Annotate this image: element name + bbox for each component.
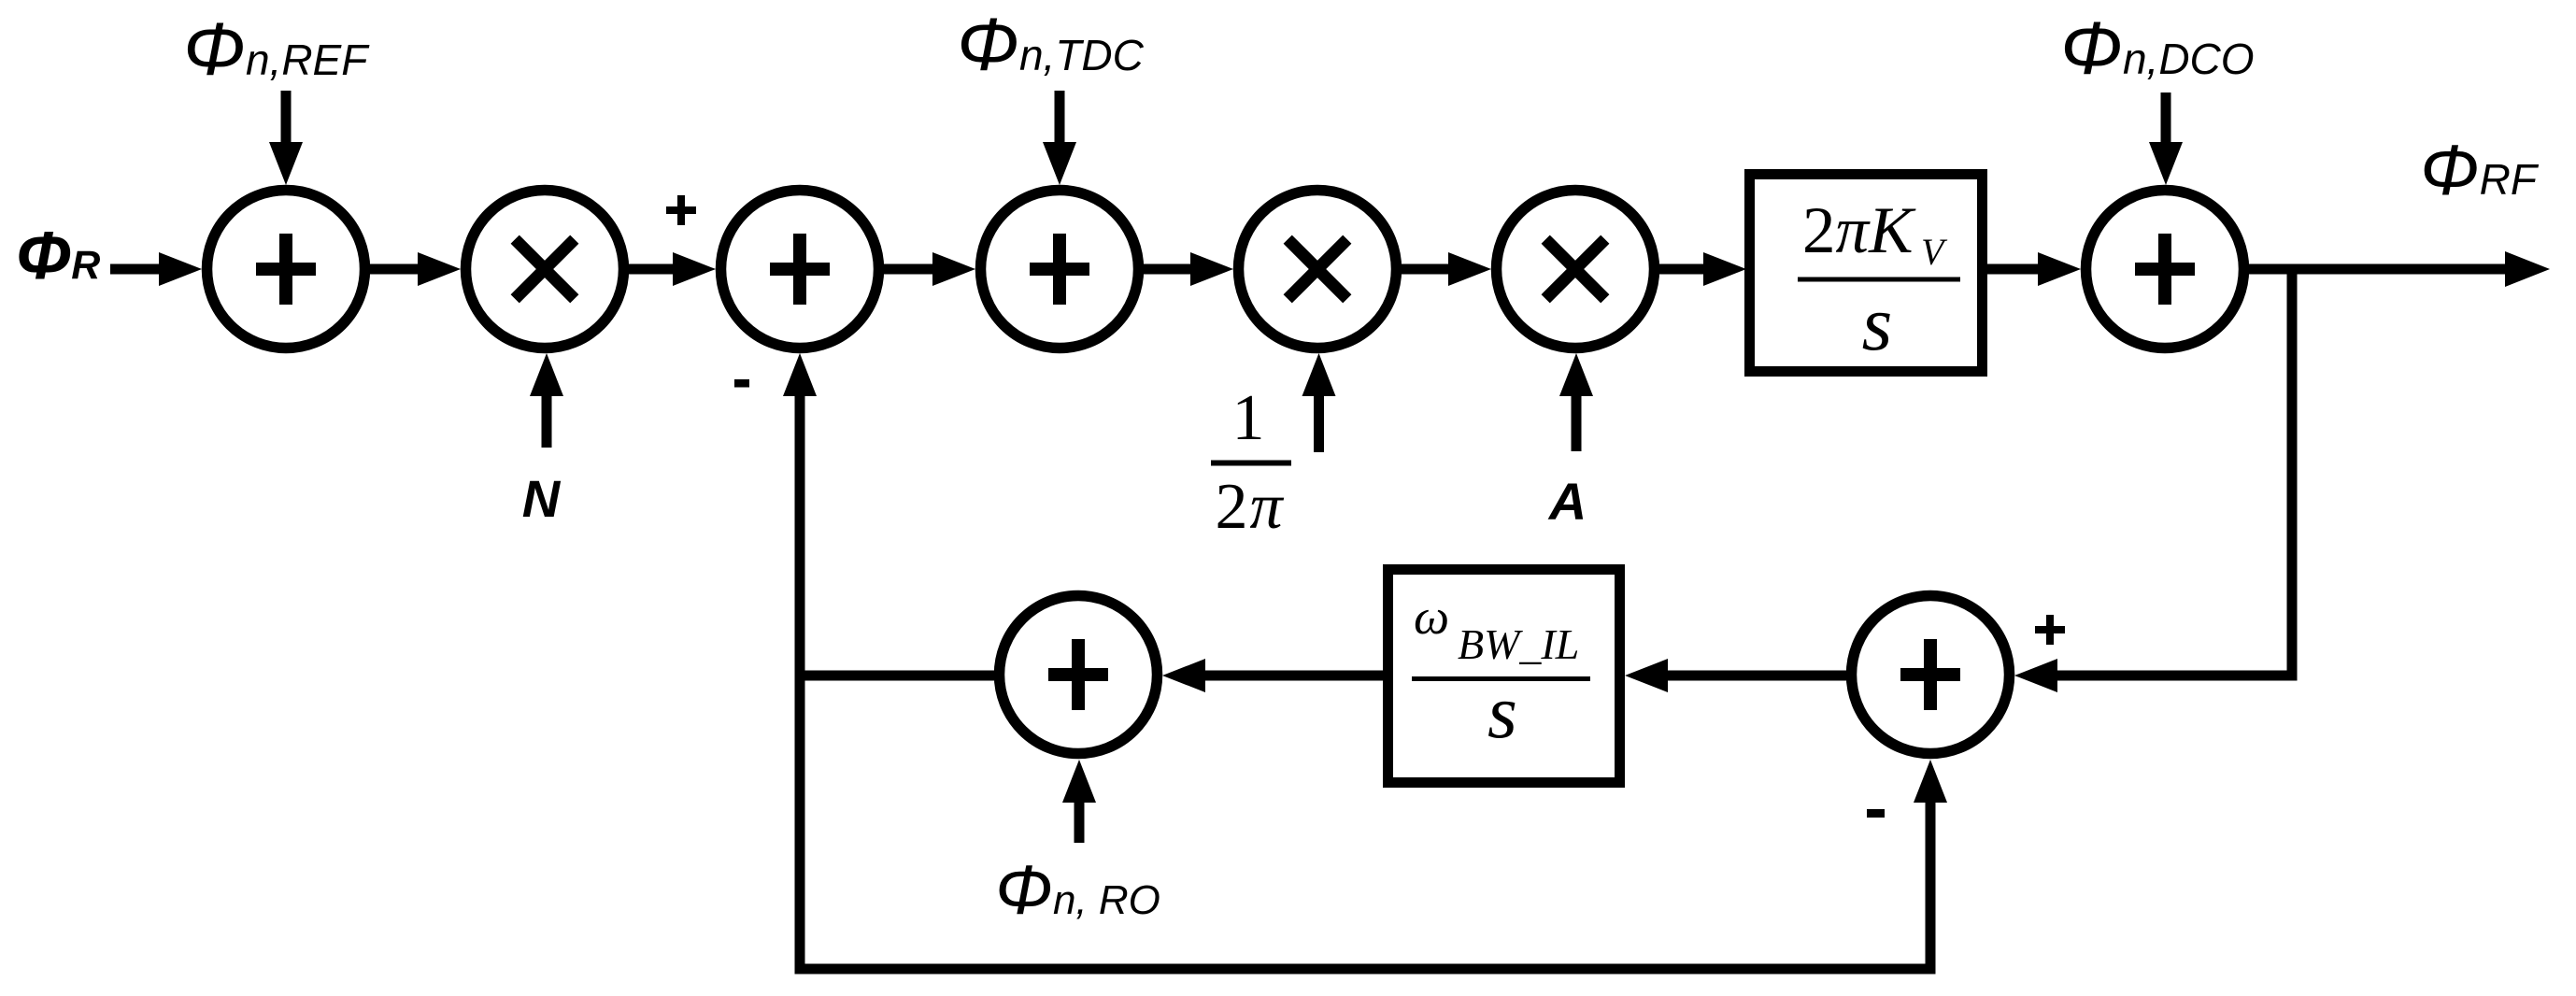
wire A arrow into M3 xyxy=(1572,396,1582,451)
summer S2 xyxy=(721,191,879,349)
summer S1 xyxy=(207,191,365,349)
node plus sign at S5 input xyxy=(2035,615,2065,645)
wire M1 to S2 xyxy=(629,264,681,275)
node 1/2pi label xyxy=(1211,382,1291,543)
svg-text:BW_IL: BW_IL xyxy=(1458,620,1579,668)
wire feedback arrow up into S2 bottom xyxy=(783,353,817,396)
summer S5 xyxy=(1852,596,2010,754)
wire Phi n,RO arrow into S6 xyxy=(1075,803,1085,843)
svg-text:N: N xyxy=(522,469,562,528)
summer S3 xyxy=(981,191,1139,349)
svg-text:s: s xyxy=(1862,280,1893,367)
wire PhiR input xyxy=(110,264,163,275)
wire S3 to M2 xyxy=(1144,264,1196,275)
wire bottom feedback run xyxy=(795,964,1936,975)
wire S5 to box B2 xyxy=(1668,671,1846,681)
svg-text:2πK: 2πK xyxy=(1802,194,1916,267)
multiplier M1 xyxy=(466,191,624,349)
svg-text:s: s xyxy=(1487,669,1517,754)
wire S2 to S3 xyxy=(884,264,936,275)
wire Phi n,TDC arrow into S3 xyxy=(1055,91,1065,143)
summer S6 xyxy=(1000,596,1158,754)
node minus sign at S5 bottom input xyxy=(1867,809,1885,818)
wire B2 to S6 xyxy=(1205,671,1383,681)
wire Phi n,DCO arrow into S4 xyxy=(2161,92,2171,143)
wire N arrow into M1 xyxy=(542,396,552,448)
svg-text:1: 1 xyxy=(1232,382,1265,454)
block B2 omega_BW_IL/s xyxy=(1388,570,1620,783)
wire 1/2pi arrow into M2 xyxy=(1314,396,1324,452)
node plus sign at S2 input xyxy=(666,195,696,225)
multiplier M3 xyxy=(1497,191,1655,349)
wire bottom feedback arrow up into S5 xyxy=(1914,760,1947,803)
node minus sign at S2 feedback input xyxy=(734,379,749,388)
svg-text:A: A xyxy=(1547,472,1587,531)
multiplier M2 xyxy=(1239,191,1397,349)
wire S6 output to left junction xyxy=(795,671,995,681)
block B1 2piKv/s xyxy=(1750,175,1983,372)
wire tap to S5 right input xyxy=(2057,671,2298,681)
wire S4 to output PhiRF xyxy=(2249,264,2507,275)
wire S1 to M1 xyxy=(370,264,422,275)
svg-text:π: π xyxy=(1249,471,1284,543)
wire B1 to S4 xyxy=(1987,264,2042,275)
wire M3 to box B1 xyxy=(1659,264,1708,275)
svg-text:ω: ω xyxy=(1414,589,1449,645)
summer S4 xyxy=(2086,191,2244,349)
wire feedback tap down from output xyxy=(2287,269,2298,681)
wire Phi n,REF arrow into S1 xyxy=(281,91,292,143)
wire M2 to M3 xyxy=(1402,264,1454,275)
svg-text:2: 2 xyxy=(1216,471,1248,543)
